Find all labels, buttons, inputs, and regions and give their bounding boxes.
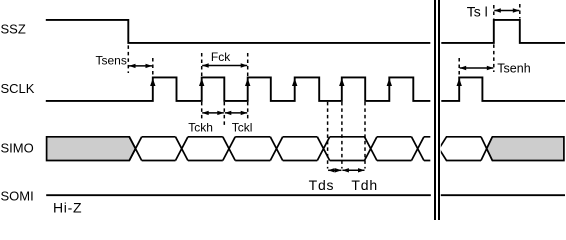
bus SIMO gray cell right — [487, 137, 564, 161]
wire SSZ waveform — [46, 20, 565, 43]
svg-text:SCLK: SCLK — [1, 81, 35, 96]
break line 1 — [434, 0, 436, 220]
svg-text:Fck: Fck — [211, 50, 231, 64]
arrow Tckl — [225, 111, 248, 115]
dashed line SSZ fall2 x519.8 — [519, 4, 521, 19]
break white gap — [431, 0, 441, 220]
dashed line SCLK r1 x152.8 — [152, 58, 154, 76]
arrow up SCLK edge 2 — [199, 78, 204, 86]
svg-text:Tdh: Tdh — [351, 177, 378, 193]
bus SIMO reopen after break — [439, 137, 481, 161]
arrow up SCLK edge 1 — [150, 78, 155, 86]
bus SIMO white cells crossovers — [129, 137, 424, 161]
svg-text:Tckl: Tckl — [232, 120, 253, 134]
arrow Tsl — [494, 8, 519, 12]
arrow up SCLK edge right — [457, 78, 462, 86]
dashed line Fck right x247.7 — [247, 53, 249, 120]
dashed line Tdh right x365 — [364, 102, 366, 169]
arrow Tsenh — [460, 66, 494, 70]
arrow up SCLK edge 6 — [387, 78, 392, 86]
svg-text:Tds: Tds — [309, 177, 335, 193]
bus SIMO crossover before gray right — [481, 137, 492, 161]
arrow Fck — [202, 63, 247, 67]
arrow up SCLK edge 4 — [292, 78, 297, 86]
svg-text:SOMI: SOMI — [1, 189, 34, 204]
svg-text:Tsenh: Tsenh — [497, 62, 530, 76]
arrow Tsens — [129, 64, 152, 68]
svg-text:Tsens: Tsens — [96, 53, 127, 67]
arrow Tds — [328, 168, 342, 172]
arrow Tckh — [202, 111, 224, 115]
arrow up SCLK edge 5 — [339, 78, 344, 86]
wire SCLK waveform — [46, 77, 565, 101]
dashed line Tds left x327.6 — [327, 102, 329, 169]
arrow up SCLK edge 3 — [245, 78, 250, 86]
svg-text:Hi-Z: Hi-Z — [53, 200, 82, 216]
break line 2 — [438, 0, 440, 220]
svg-text:SSZ: SSZ — [1, 22, 26, 37]
dashed line SSZ rise x493.8 — [493, 5, 495, 72]
arrow Tdh — [342, 168, 365, 172]
wire SOMI line — [46, 194, 565, 196]
dashed line Fck left x201.7 — [201, 53, 203, 120]
bus SIMO gray cell left — [47, 137, 136, 161]
svg-text:Ts l: Ts l — [467, 3, 488, 19]
svg-text:SIMO: SIMO — [1, 141, 34, 156]
dashed line Tsenh left x459.2 — [458, 58, 460, 76]
dashed line Tck mid x224.3 — [223, 102, 225, 126]
dashed line SSZ fall x128 — [127, 45, 129, 73]
svg-text:Tckh: Tckh — [188, 120, 213, 134]
dashed line Tds right x341.9 — [341, 102, 343, 169]
bus SIMO top/bottom rails — [142, 137, 431, 161]
